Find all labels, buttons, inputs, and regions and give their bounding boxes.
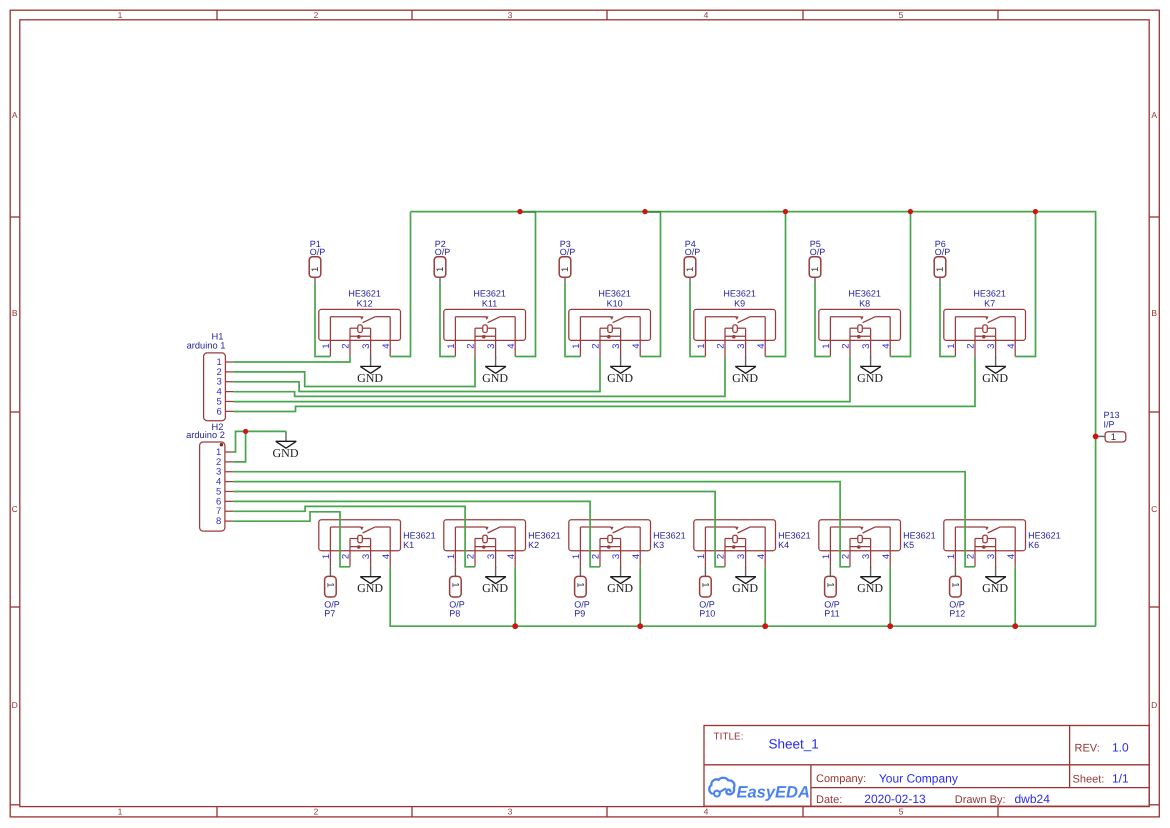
relay K8 coil [858,325,863,333]
svg-text:4: 4 [631,554,642,559]
svg-text:2: 2 [466,554,477,559]
svg-text:3: 3 [611,554,622,559]
svg-text:1: 1 [575,582,586,587]
relay K8 pin 3 [870,328,872,358]
relay K4 coil connection lines [725,538,733,540]
relay K3 coil connection lines [600,538,608,540]
svg-text:4: 4 [1006,554,1017,559]
relay K2 switch contact lines [455,526,485,528]
relay K9 coil [733,325,738,333]
ground GND under K1 pin 3 [357,567,383,595]
svg-text:1: 1 [810,267,821,272]
svg-text:1: 1 [435,267,446,272]
relay K8 HE3621 [819,288,901,358]
ground GND under K2 pin 3 [482,567,508,595]
svg-text:2: 2 [716,554,727,559]
wire H1.5 to K8 pin 2 [234,357,850,402]
relay K11 polarity dot [482,335,486,339]
svg-text:Sheet_1: Sheet_1 [769,737,819,752]
relay K3 body outline [569,520,651,551]
relay K2 switch blade [488,527,501,533]
svg-text:1: 1 [310,267,321,272]
ground GND under K5 pin 3 [857,567,883,595]
svg-text:1: 1 [560,267,571,272]
relay K3 HE3621 [569,520,686,569]
ground GND under K12 pin 3 [357,357,383,385]
junction dot H2 ground net [243,429,248,434]
wire P2 to K pin 1 [440,284,455,357]
svg-text:GND: GND [357,371,383,385]
relay K7 pin 2 [974,328,976,356]
svg-text:K3: K3 [653,540,664,550]
relay K6 HE3621 [944,520,1061,569]
junction dot bottom bus (K6 branch) [1012,623,1018,629]
svg-text:2: 2 [966,344,977,349]
wire top bus and right drop [411,212,1096,627]
svg-text:P11: P11 [824,608,839,618]
svg-text:4: 4 [381,554,392,559]
svg-text:1: 1 [118,10,123,20]
svg-text:1: 1 [571,554,582,559]
svg-text:P7: P7 [324,608,335,618]
connector P11 O/P [824,567,840,619]
relay K9 switch contact lines [705,316,735,318]
relay K12 polarity dot [357,335,361,339]
svg-text:Drawn By:: Drawn By: [955,794,1006,806]
relay K10 polarity dot [607,335,611,339]
relay K7 pin 3 [995,328,997,358]
relay K5 pin 1 [829,527,831,567]
svg-text:4: 4 [1006,344,1017,349]
relay K4 coil [733,535,738,543]
relay K6 switch arrowhead [985,527,989,531]
relay K4 switch blade [738,527,751,533]
relay K7 polarity dot [982,335,986,339]
relay K5 pin 4 [889,527,891,567]
relay K1 pin 2 [349,539,351,567]
svg-text:3: 3 [611,344,622,349]
relay K8 switch blade [863,316,876,322]
svg-text:HE3621: HE3621 [848,288,881,298]
svg-text:5: 5 [899,807,904,817]
wire K11 pin 4 riser [515,212,535,357]
svg-text:3: 3 [986,554,997,559]
svg-text:HE3621: HE3621 [528,531,561,541]
svg-text:O/P: O/P [685,247,701,257]
relay K3 coil [608,535,613,543]
relay K7 body outline [944,309,1026,340]
svg-text:3: 3 [486,554,497,559]
svg-text:3: 3 [986,344,997,349]
label REV: [1075,742,1100,754]
svg-text:P8: P8 [449,608,460,618]
wire H2.1 to GND [233,431,286,452]
svg-text:5: 5 [899,10,904,20]
svg-text:2: 2 [314,10,319,20]
connector P5 O/P [809,239,825,284]
relay K2 pin 2 [474,539,476,567]
svg-text:K7: K7 [984,298,995,308]
connector P3 O/P [559,239,575,284]
relay K5 polarity dot [857,545,861,549]
junction dot bottom bus (K5 branch) [887,623,893,629]
relay K2 pin 3 [495,539,497,569]
svg-text:1: 1 [950,582,961,587]
svg-text:P9: P9 [574,608,585,618]
connector P12 O/P [949,567,965,619]
wire K5 pin 4 riser [889,567,891,626]
relay K3 pin 3 [620,539,622,569]
wire H1.6 to K7 pin 2 [234,357,975,412]
title block lines [704,726,1149,807]
relay K10 coil connection lines [600,327,608,329]
relay K3 switch blade [613,527,626,533]
relay K3 pin 1 [579,527,581,567]
relay K9 switch blade [738,316,751,322]
svg-text:TITLE:: TITLE: [714,732,744,743]
relay K2 coil connection lines [475,538,483,540]
connector P6 O/P [934,239,950,284]
svg-text:A: A [12,110,18,120]
relay K8 switch arrowhead [860,316,864,320]
relay K12 pin 3 [370,328,372,358]
wire H2.4 to K5 pin 2 [233,482,850,567]
svg-text:O/P: O/P [310,247,326,257]
svg-text:1: 1 [685,267,696,272]
svg-text:3: 3 [861,344,872,349]
svg-text:3: 3 [736,344,747,349]
relay K5 pin 2 [849,539,851,567]
ground GND under K7 pin 3 [982,357,1008,385]
svg-text:HE3621: HE3621 [598,288,631,298]
ground GND near H2 [273,431,299,459]
relay K12 pin 4 [389,317,391,357]
svg-text:4: 4 [756,344,767,349]
relay K12 pin 1 [329,317,331,357]
svg-text:D: D [12,700,18,710]
svg-text:GND: GND [482,581,508,595]
svg-text:3: 3 [486,344,497,349]
relay K5 pin 3 [870,539,872,569]
relay K6 pin 3 [995,539,997,569]
svg-text:K11: K11 [482,298,497,308]
svg-text:8: 8 [216,516,221,527]
svg-text:3: 3 [508,10,513,20]
relay K9 switch arrowhead [735,316,739,320]
relay K3 polarity dot [607,545,611,549]
label Drawn By: [955,794,1006,806]
svg-text:1: 1 [696,554,707,559]
wire K4 pin 4 riser [764,567,766,626]
relay K12 switch contact lines [330,316,360,318]
svg-text:6: 6 [217,406,222,417]
junction dot bottom bus (K4 branch) [762,623,768,629]
relay K2 body outline [444,520,526,551]
svg-text:4: 4 [381,344,392,349]
relay K9 polarity dot [732,335,736,339]
svg-text:Your Company: Your Company [879,772,958,786]
wire P4 to K pin 1 [690,284,705,357]
svg-text:K6: K6 [1028,540,1039,550]
svg-text:2: 2 [314,807,319,817]
svg-text:arduino 1: arduino 1 [187,341,226,351]
relay K5 body outline [819,520,901,551]
relay K11 pin 3 [495,328,497,358]
value Sheet 1/1 [1112,772,1129,786]
svg-text:B: B [12,308,18,318]
svg-text:3: 3 [861,554,872,559]
relay K2 polarity dot [482,545,486,549]
relay K6 coil connection lines [975,538,983,540]
svg-text:2: 2 [591,554,602,559]
connector P13 I/P [1097,410,1126,443]
relay K2 pin 4 [514,527,516,567]
svg-text:A: A [1151,110,1157,120]
svg-text:O/P: O/P [810,247,826,257]
svg-text:C: C [1151,504,1157,514]
relay K9 pin 4 [764,317,766,357]
junction dot bottom bus (K3 branch) [637,623,643,629]
connector P9 O/P [574,567,590,619]
relay K1 switch contact lines [330,526,360,528]
svg-text:1: 1 [946,344,957,349]
svg-text:HE3621: HE3621 [903,531,936,541]
svg-text:2: 2 [841,344,852,349]
relay K8 switch contact lines [830,316,860,318]
junction dot top bus (K7 branch) [1033,209,1038,214]
svg-text:4: 4 [506,344,517,349]
svg-text:3: 3 [736,554,747,559]
relay K8 coil connection lines [850,327,858,329]
relay K10 pin 3 [620,328,622,358]
ground GND under K6 pin 3 [982,567,1008,595]
wire K7 pin 4 riser [1015,212,1035,357]
relay K4 pin 1 [704,527,706,567]
relay K10 pin 2 [599,328,601,356]
wire H2.5 to K4 pin 2 [233,492,725,567]
relay K8 polarity dot [857,335,861,339]
svg-text:GND: GND [982,371,1008,385]
svg-text:1: 1 [446,554,457,559]
svg-text:GND: GND [607,371,633,385]
relay K11 pin 2 [474,328,476,356]
value REV 1.0 [1112,740,1129,754]
wire H1.1 to K12 pin 2 [234,357,350,363]
relay K11 coil [483,325,488,333]
relay K5 HE3621 [819,520,936,569]
connector P4 O/P [684,239,700,284]
ground GND under K11 pin 3 [482,357,508,385]
svg-text:2020-02-13: 2020-02-13 [864,792,926,806]
relay K5 switch contact lines [830,526,860,528]
svg-text:1: 1 [571,344,582,349]
relay K4 polarity dot [732,545,736,549]
wire H2.2 to GND junction [233,431,245,462]
relay K9 pin 3 [745,328,747,358]
ground GND under K8 pin 3 [857,357,883,385]
title Sheet_1 [769,737,819,752]
junction dot top bus (K8 branch) [908,209,913,214]
wire K6 pin 4 riser [1014,567,1016,626]
svg-text:2: 2 [341,344,352,349]
relay K1 pin 4 [389,527,391,567]
svg-text:1: 1 [1111,432,1116,443]
relay K12 switch blade [363,316,376,322]
wire overlap segment near K10 riser [645,211,660,213]
relay K4 pin 4 [764,527,766,567]
svg-text:GND: GND [607,581,633,595]
svg-text:3: 3 [361,344,372,349]
svg-text:O/P: O/P [435,247,451,257]
svg-text:2: 2 [841,554,852,559]
svg-text:dwb24: dwb24 [1015,792,1051,806]
relay K11 pin 1 [454,317,456,357]
wire K9 pin 4 riser [765,212,785,357]
relay K4 switch contact lines [705,526,735,528]
relay K8 body outline [819,309,901,340]
svg-text:HE3621: HE3621 [653,531,686,541]
relay K6 body outline [944,520,1026,551]
svg-text:HE3621: HE3621 [723,288,756,298]
svg-text:GND: GND [857,581,883,595]
junction dot top bus (K9 branch) [783,209,788,214]
svg-text:REV:: REV: [1075,742,1100,754]
connector P10 O/P [699,567,715,619]
svg-text:3: 3 [361,554,372,559]
svg-text:I/P: I/P [1104,420,1115,430]
relay K9 pin 1 [704,317,706,357]
svg-text:HE3621: HE3621 [403,531,436,541]
ground GND under K10 pin 3 [607,357,633,385]
value Drawn By dwb24 [1015,792,1051,806]
title label TITLE: [714,732,744,743]
wire K2 pin 4 riser [514,567,516,626]
relay K7 pin 4 [1014,317,1016,357]
svg-text:HE3621: HE3621 [778,531,811,541]
ground GND under K4 pin 3 [732,567,758,595]
svg-text:P10: P10 [699,608,715,618]
relay K1 HE3621 [319,520,436,569]
relay K10 switch blade [613,316,626,322]
wire P3 to K pin 1 [565,284,580,357]
relay K6 coil [983,535,988,543]
connector P1 O/P [309,239,325,284]
relay K6 polarity dot [982,545,986,549]
svg-text:2: 2 [341,554,352,559]
relay K6 switch blade [988,527,1001,533]
relay K5 switch arrowhead [860,527,864,531]
svg-text:O/P: O/P [935,247,951,257]
svg-text:K8: K8 [859,298,870,308]
svg-text:1: 1 [946,554,957,559]
relay K2 pin 1 [454,527,456,567]
relay K7 coil [983,325,988,333]
junction dot bottom bus (K2 branch) [512,623,518,629]
relay K3 pin 4 [639,527,641,567]
svg-text:O/P: O/P [560,247,576,257]
ground GND under K9 pin 3 [732,357,758,385]
svg-text:C: C [12,504,18,514]
svg-text:1: 1 [321,344,332,349]
svg-text:1: 1 [450,582,461,587]
relay K7 switch blade [988,316,1001,322]
relay K11 HE3621 [444,288,526,358]
svg-text:1: 1 [935,267,946,272]
svg-text:K4: K4 [778,540,789,550]
relay K9 HE3621 [694,288,776,358]
wire K3 pin 4 riser [639,567,641,626]
relay K7 HE3621 [944,288,1026,358]
junction dot top bus (K10 branch) [642,209,647,214]
svg-text:K9: K9 [734,298,745,308]
relay K11 body outline [444,309,526,340]
relay K7 switch arrowhead [985,316,989,320]
label Company: [816,773,866,785]
relay K8 pin 4 [889,317,891,357]
relay K4 pin 2 [724,539,726,567]
svg-text:1: 1 [700,582,711,587]
wire H2.6 to K3 pin 2 [233,501,600,566]
svg-text:1: 1 [821,554,832,559]
relay K10 pin 1 [579,317,581,357]
value Date 2020-02-13 [864,792,926,806]
relay K10 switch contact lines [580,316,610,318]
svg-text:GND: GND [732,371,758,385]
relay K10 body outline [569,309,651,340]
relay K10 coil [608,325,613,333]
svg-text:3: 3 [508,807,513,817]
relay K4 pin 3 [745,539,747,569]
svg-text:2: 2 [966,554,977,559]
relay K9 body outline [694,309,776,340]
relay K1 body outline [319,520,401,551]
relay K6 pin 2 [974,539,976,567]
relay K6 pin 1 [954,527,956,567]
relay K1 switch blade [363,527,376,533]
svg-text:2: 2 [466,344,477,349]
svg-text:1: 1 [696,344,707,349]
wire K10 pin 4 riser [640,212,660,357]
connector P8 O/P [449,567,465,619]
relay K12 pin 2 [349,328,351,356]
wire bottom bus [390,567,1095,626]
relay K12 body outline [319,309,401,340]
wire H2.7 to K2 pin 2 [233,506,475,566]
svg-text:HE3621: HE3621 [973,288,1006,298]
relay K2 switch arrowhead [485,527,489,531]
connector P2 O/P [434,239,450,284]
svg-text:K1: K1 [403,540,414,550]
wire H2.8 to K1 pin 2 [233,512,350,567]
relay K7 pin 1 [954,317,956,357]
wire H1.3 to K10 pin 2 [234,357,600,392]
relay K12 switch arrowhead [360,316,364,320]
connector H1 arduino 1 [187,332,234,421]
relay K1 switch arrowhead [360,527,364,531]
relay K3 pin 2 [599,539,601,567]
svg-text:GND: GND [273,446,299,460]
relay K6 switch contact lines [955,526,985,528]
junction dot P13 tap [1093,434,1099,440]
svg-text:1/1: 1/1 [1112,772,1129,786]
svg-text:Company:: Company: [816,773,866,785]
relay K11 pin 4 [514,317,516,357]
svg-text:1: 1 [321,554,332,559]
relay K1 pin 1 [329,527,331,567]
connector H2 arduino 2 [186,422,233,531]
svg-text:K10: K10 [607,298,623,308]
relay K10 switch arrowhead [610,316,614,320]
